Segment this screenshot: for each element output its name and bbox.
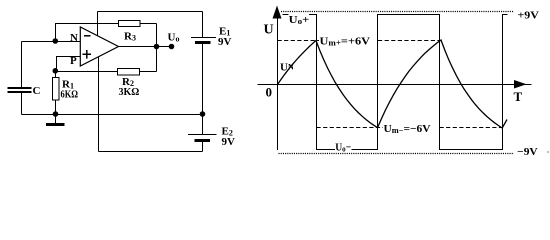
svg-text:P: P (70, 55, 77, 67)
svg-text:9V: 9V (218, 36, 232, 48)
svg-text:9V: 9V (222, 136, 236, 148)
svg-text:N: N (70, 32, 78, 44)
svg-text:−9V: −9V (517, 146, 538, 158)
svg-text:U: U (264, 23, 274, 38)
svg-text:C: C (33, 85, 41, 97)
svg-text:Um−=−6V: Um−=−6V (384, 123, 431, 135)
svg-text:+9V: +9V (518, 10, 539, 22)
svg-text:Um+=+6V: Um+=+6V (320, 35, 371, 47)
svg-text:6KΩ: 6KΩ (61, 90, 79, 101)
svg-text:3KΩ: 3KΩ (119, 87, 140, 98)
svg-text:T: T (514, 89, 523, 104)
svg-text:0: 0 (266, 85, 273, 100)
